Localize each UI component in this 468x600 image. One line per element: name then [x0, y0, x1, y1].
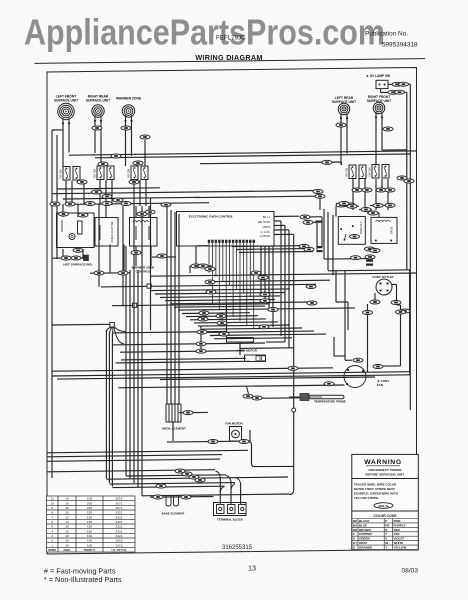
EOC pin 8 wire	[232, 243, 234, 317]
bundle low v 130	[129, 270, 131, 479]
recept L chain	[367, 304, 369, 311]
connector conn (257,398)	[252, 396, 262, 400]
wire into relay board	[387, 192, 389, 210]
connector conn (397,84.3)	[392, 82, 402, 86]
motor feed v	[344, 356, 346, 360]
connector conn (83,215)	[78, 213, 88, 217]
fan row wire to the right, down and across	[246, 442, 294, 467]
wire coil1 left lead	[62, 123, 64, 167]
bundle low v 134	[133, 206, 135, 483]
lamp wire 2	[381, 91, 407, 93]
connector conn (305,217)	[300, 215, 310, 219]
band wire 293	[155, 293, 285, 295]
motor feed v2	[333, 337, 335, 356]
bundle v3	[170, 210, 172, 404]
connector conn (138,163)	[133, 161, 143, 165]
connector conn (70,204)	[65, 202, 75, 206]
wire eoc left down	[195, 246, 197, 266]
connector conn (409,181)	[404, 179, 414, 183]
wrap v1	[323, 209, 325, 259]
pin wire right 2	[236, 248, 306, 251]
S2 pin wire	[105, 180, 107, 205]
bottom wire 478	[106, 477, 288, 479]
connector conn (399.5,92.2)	[395, 90, 405, 94]
stub	[341, 162, 343, 165]
EOC pin 10 wire	[239, 243, 241, 321]
band wire 326	[198, 325, 290, 326]
S5 pin wire	[375, 179, 377, 192]
eoc out w4	[274, 229, 289, 231]
S4 pin wire	[352, 179, 354, 192]
S2 pin wire	[99, 180, 101, 205]
convection fan motor	[344, 366, 366, 388]
broil element	[166, 404, 181, 422]
connector conn (263,277.5)	[258, 276, 268, 280]
convection outlet receptacle	[376, 279, 392, 295]
connector conn (166,204.7)	[161, 203, 171, 207]
surface unit coil right-front	[373, 102, 385, 118]
bus 373	[52, 372, 410, 376]
wire into HSI	[62, 204, 64, 217]
band wire 307	[174, 306, 265, 307]
eoc drop 273	[272, 246, 274, 327]
wire lock 3	[120, 351, 245, 353]
S5 pin wire	[381, 179, 383, 192]
relay out down	[347, 302, 349, 330]
band wire 332	[206, 331, 314, 332]
wire to lock sw	[112, 343, 265, 345]
oval wire right2	[311, 221, 317, 223]
recept R down	[400, 314, 402, 366]
connector conn (136,252.6)	[131, 251, 141, 255]
band wire 303	[170, 302, 312, 304]
wire fan from junction	[106, 327, 126, 344]
EOC pin 1 wire	[208, 243, 210, 273]
down from 322	[321, 217, 323, 246]
connector conn (213,441.5)	[208, 440, 218, 444]
connector conn (76,258)	[71, 256, 81, 260]
connector conn (224,334)	[219, 332, 229, 336]
connector conn (375,250.5)	[370, 249, 380, 253]
junction node square	[110, 323, 115, 328]
bottom wire 455	[47, 455, 222, 457]
S3 pin wire	[133, 180, 135, 206]
motor feed h	[334, 355, 345, 357]
bundle low v 142	[141, 206, 143, 496]
wire down to relay	[319, 195, 321, 210]
warning subtitle	[365, 468, 404, 477]
bundle low v 112	[111, 334, 113, 487]
stub into box A	[335, 207, 337, 217]
band wire 316	[186, 315, 258, 318]
recept lead R	[396, 285, 398, 304]
connector conn (355.5,257.7)	[351, 256, 361, 260]
connector conn (103,164)	[98, 162, 108, 166]
branch oval BW	[195, 196, 320, 198]
connector conn (161,486)	[156, 484, 166, 488]
connector conn (341,205)	[336, 203, 346, 207]
wire top-left jog	[52, 129, 63, 131]
band wire 300	[165, 299, 275, 300]
oval wire right	[310, 216, 322, 218]
eoc out w5	[274, 233, 294, 235]
wrap h1	[324, 258, 370, 261]
eoc w3 to lock box	[266, 341, 285, 343]
recept right lead h	[392, 284, 397, 286]
EOC pin 5 wire	[222, 243, 224, 281]
wire band l2 long	[52, 191, 318, 194]
connector conn (90,203.5)	[85, 202, 95, 206]
wire into warmer zone ctl 2	[148, 206, 150, 218]
connector conn (162,256)	[157, 254, 167, 258]
bundle low v 109	[108, 332, 110, 483]
stub into box B	[378, 213, 380, 217]
bake element	[166, 496, 179, 507]
diagram frame	[47, 67, 417, 554]
bottom wire 451	[47, 450, 248, 453]
relay out 2	[344, 271, 346, 357]
wrap v2	[327, 212, 329, 270]
wire into oven light sw	[105, 205, 107, 218]
wire band l1	[57, 188, 160, 189]
S4 pin wire	[358, 179, 360, 192]
connector conn (354.5,236.5)	[350, 235, 360, 239]
wire into relay board	[375, 192, 377, 210]
wire into relay board	[352, 192, 354, 210]
coil4 lead left	[340, 115, 342, 165]
bus A top horizontal	[69, 151, 417, 155]
band wire 329	[202, 328, 302, 329]
coil5 to right col	[382, 149, 407, 151]
warning box	[352, 454, 419, 550]
oval stub 373	[367, 212, 379, 214]
oven relay box A	[338, 217, 365, 245]
band wire 319	[190, 318, 266, 321]
temperature probe	[289, 394, 344, 401]
recept R chain	[400, 305, 402, 310]
connector conn (180,471)	[175, 469, 185, 473]
connector conn (329,383.8)	[324, 382, 334, 386]
probe connector stub from bus	[247, 386, 249, 394]
relay small labels	[366, 260, 373, 262]
terminal funnels	[216, 471, 241, 492]
pin wire right 3	[239, 251, 313, 254]
light sw out	[109, 245, 111, 274]
S2 pin wire	[111, 180, 113, 205]
connector conn (158,497)	[153, 495, 163, 499]
S4 pin wire	[364, 179, 366, 192]
coil5 lead right	[381, 114, 383, 150]
connector conn (403.5,84.2)	[399, 82, 409, 86]
EOC pin 14 wire	[253, 243, 255, 329]
connector conn (244,441.5)	[239, 440, 249, 444]
connector conn (373,213)	[368, 211, 378, 215]
wire to lock bar	[113, 332, 227, 333]
bundle low v 126	[125, 246, 127, 476]
warmer zone control box	[130, 218, 158, 247]
HSI out	[62, 249, 64, 259]
bus 376	[57, 375, 410, 379]
connector conn (352,206.3)	[347, 204, 357, 208]
HSI out 2	[82, 249, 84, 259]
bottom wire 470	[47, 470, 215, 472]
wire oval chain row	[52, 257, 84, 259]
color code table	[352, 519, 419, 550]
eoc w4 to lock box	[240, 347, 294, 350]
wire 362	[115, 361, 250, 363]
band wire 273	[90, 272, 130, 274]
infinite switch S2	[93, 166, 115, 180]
wire oval 168	[152, 256, 176, 258]
connector conn (390,205.4)	[385, 203, 395, 207]
EOC pin 3 wire	[215, 243, 217, 277]
bus B top horizontal	[95, 154, 410, 158]
wrap v3	[332, 215, 334, 275]
connector conn (107,203.5)	[102, 202, 112, 206]
connector conn (194,477)	[189, 475, 199, 479]
band wire 305	[112, 304, 270, 306]
connector conn (201,351.2)	[196, 349, 206, 353]
broil out to fan row	[172, 422, 174, 441]
connector conn (341,125)	[336, 123, 346, 127]
connector conn (221,316)	[216, 314, 226, 318]
bundle low v 106	[105, 330, 107, 479]
surface unit coil left-front	[58, 103, 74, 124]
infinite switch S4	[345, 165, 367, 179]
connector conn (367,190)	[362, 188, 372, 192]
connector conn (344,203.5)	[339, 202, 349, 206]
connector conn (134,182)	[129, 180, 139, 184]
wire coil3 left lead	[125, 121, 127, 167]
connector conn (293,368.3)	[288, 366, 298, 370]
left vertical 2	[56, 135, 58, 259]
connector conn (390,190)	[385, 188, 395, 192]
relay out 1	[335, 271, 337, 303]
bundle v5	[178, 214, 180, 404]
connector conn (150,212)	[145, 210, 155, 214]
connector conn (204,313)	[199, 311, 209, 315]
branch to relay right	[200, 162, 342, 164]
band wire 313	[182, 312, 250, 315]
bundle v1	[150, 199, 152, 331]
bus u-turn	[409, 372, 411, 375]
oval stub 344	[336, 202, 353, 204]
connector conn (378,366.5)	[373, 365, 383, 369]
fan row up	[249, 430, 251, 442]
connector conn (357,190)	[352, 188, 362, 192]
connector conn (327,162.4)	[322, 160, 332, 164]
connector conn (256,273)	[251, 271, 261, 275]
S1 pin wire	[71, 181, 73, 205]
band wire 338	[214, 338, 292, 339]
wire oval row 266	[190, 265, 212, 267]
connector conn (248,396.2)	[243, 394, 253, 398]
long vertical 293 to terminal area	[293, 235, 295, 491]
EOC right side terminal labels	[258, 215, 271, 238]
wire into HSI 2	[77, 204, 79, 217]
wire coil3 right lead	[131, 121, 133, 157]
wire to S3	[144, 140, 146, 166]
connector conn (203,319)	[198, 317, 208, 321]
node square 3	[147, 284, 151, 288]
connector conn (273,309.5)	[268, 308, 278, 312]
stub wire 412	[179, 411, 208, 413]
connector conn (265,294.5)	[260, 293, 270, 297]
oven relay box B	[371, 217, 397, 243]
wire 359	[121, 358, 246, 360]
connector conn (63.5,214)	[59, 212, 69, 216]
connector conn (393,92.3)	[388, 90, 398, 94]
EOC pin 11 wire	[242, 243, 244, 293]
bundle v4	[174, 212, 176, 404]
band wire 325 from L1	[52, 323, 112, 326]
S1 pin wire	[83, 181, 85, 205]
connector conn (210,282)	[205, 280, 215, 284]
band wire 290	[150, 289, 290, 291]
fan motor row wire	[167, 441, 250, 442]
connector conn (369.5,249)	[365, 247, 375, 251]
connector conn (107,196.5)	[102, 195, 112, 199]
connector conn (142,214)	[137, 212, 147, 216]
eoc drop 269	[268, 246, 270, 310]
infinite switch S3	[127, 166, 149, 180]
bottom wire 486	[112, 486, 224, 487]
wrap wire right down	[409, 270, 411, 372]
connector conn (405,311)	[400, 309, 410, 313]
wire band l3	[63, 197, 200, 199]
right col v 410	[409, 84, 411, 410]
surface unit coil right-rear	[92, 105, 104, 122]
infinite switch S5	[368, 165, 390, 179]
wzc out 2	[150, 246, 152, 266]
connector conn (211,292)	[206, 290, 216, 294]
warmer zone coil	[122, 105, 134, 122]
connector conn (265,300.8)	[260, 299, 270, 303]
infinite switch S1	[59, 167, 81, 181]
connector conn (358,360.2)	[353, 358, 363, 362]
S5 pin wire	[387, 179, 389, 192]
EOC pin 7 wire	[229, 243, 231, 285]
header rule	[35, 59, 426, 64]
coil5 lead left	[375, 114, 377, 164]
band wire 287	[101, 284, 316, 287]
connector conn (350,205)	[345, 203, 355, 207]
EOC pin 9 wire	[236, 243, 238, 289]
connector conn (366,209.5)	[361, 208, 371, 212]
connector conn (126,203.5)	[121, 202, 131, 206]
connector conn (123,273)	[118, 271, 128, 275]
connector conn (187,474)	[182, 472, 192, 476]
junction node square 2	[133, 303, 137, 307]
connector conn (396,302.5)	[391, 301, 401, 305]
connector conn (402,178)	[397, 176, 407, 180]
L1 bus left vertical	[51, 130, 53, 478]
eoc out w2	[274, 220, 281, 222]
connector conn (118,200)	[113, 198, 123, 202]
wire 368 to motor region	[52, 368, 333, 371]
connector conn (97,128)	[92, 126, 102, 130]
band wire 297	[160, 296, 280, 298]
connector conn (96.5,192)	[92, 190, 102, 194]
warning paragraph	[354, 483, 398, 501]
EOC pin 12 wire	[246, 243, 248, 325]
scan noise overlay	[0, 0, 1, 1]
connector conn (304,246.4)	[299, 244, 309, 248]
EOC pin 6 wire	[225, 243, 227, 313]
eoc out w3	[274, 224, 285, 226]
bottom wire 494	[142, 494, 289, 496]
connector conn (116,156)	[111, 154, 121, 158]
bottom wire 460	[47, 459, 220, 461]
connector conn (370,257)	[365, 255, 375, 259]
junction node circle	[292, 408, 296, 412]
connector conn (318,191.5)	[313, 190, 323, 194]
band wire 282	[206, 280, 330, 282]
EOC terminal pins	[208, 240, 255, 243]
oval stub 366	[359, 208, 372, 210]
wire into lock bar top	[226, 303, 228, 337]
wzc out	[135, 246, 137, 266]
wire coil2 left lead	[94, 121, 96, 154]
connector conn (186,497)	[181, 495, 191, 499]
wire oval row 269	[205, 268, 216, 270]
tb lead 3	[240, 483, 242, 504]
bottom wire 475	[126, 475, 226, 476]
wire coil2 right lead	[100, 121, 102, 167]
S1 pin wire	[65, 181, 67, 205]
connector conn (210,269)	[205, 267, 215, 271]
connector conn (203,266)	[198, 264, 208, 268]
cooling fan motor	[230, 427, 242, 442]
bus third strand	[160, 377, 375, 380]
eoc out w2 v	[280, 221, 282, 336]
bundle v2	[166, 205, 168, 404]
EOC pin 2 wire	[211, 243, 213, 305]
connector conn (200,480)	[195, 478, 205, 482]
S3 pin wire	[145, 180, 147, 206]
hot surface indicator box	[57, 213, 95, 248]
oven lamp switch box	[376, 80, 388, 88]
connector conn (378,205.5)	[373, 204, 383, 208]
connector conn (312,303)	[307, 301, 317, 305]
band wire 335	[210, 334, 326, 335]
recept L down to bus	[367, 315, 369, 372]
probe feed h	[252, 397, 300, 400]
wire drop 123	[122, 206, 124, 306]
wire coil1 right lead	[68, 123, 70, 153]
tb lead 1	[219, 477, 221, 504]
oval stub 352	[344, 205, 359, 207]
wrap h2	[328, 270, 411, 271]
lock motor down	[239, 342, 241, 355]
connector conn (78,250.3)	[73, 248, 83, 252]
connector conn (388,129)	[383, 127, 393, 131]
wire into warmer zone ctl	[135, 206, 137, 218]
coil4 lead right	[346, 115, 348, 154]
tb lead 2	[230, 481, 232, 504]
eoc out w4 v	[288, 230, 290, 348]
connector conn (381,190)	[376, 188, 386, 192]
connector conn (375,302)	[370, 300, 380, 304]
down	[189, 266, 191, 273]
connector conn (145,137)	[140, 135, 150, 139]
bottom wire 483	[109, 483, 235, 485]
relay jog	[336, 301, 348, 303]
recept chain jog	[397, 304, 401, 306]
connector conn (99,273)	[94, 271, 104, 275]
eoc drop 261	[260, 246, 262, 295]
bus 386 to motor	[118, 385, 344, 388]
